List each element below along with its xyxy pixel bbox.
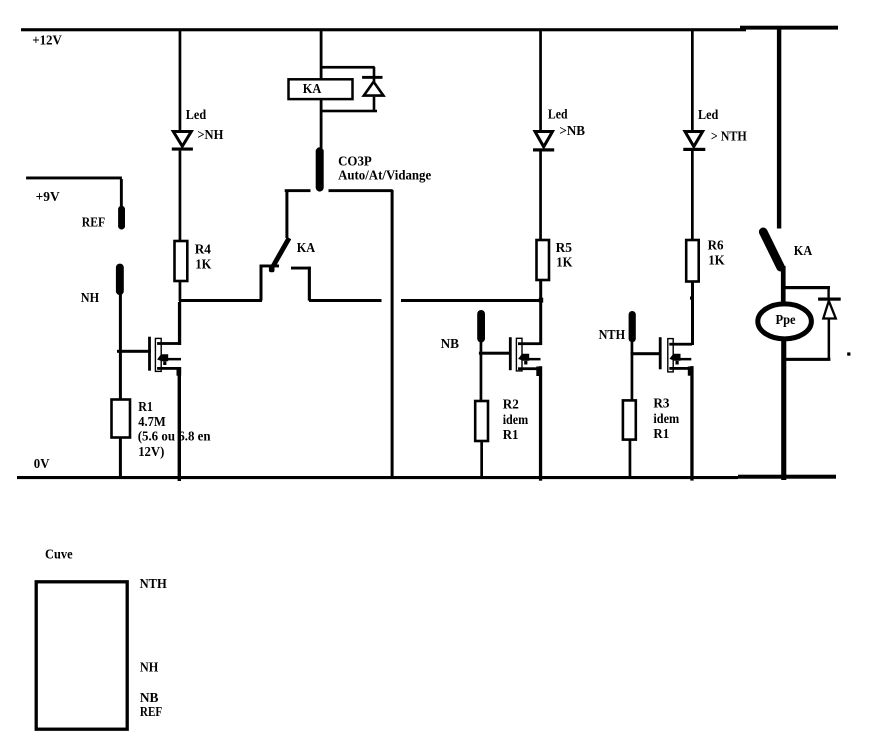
0V rail [17, 475, 836, 479]
LED >NTH diode [683, 132, 705, 152]
wire Led to R4 [179, 151, 182, 241]
wire R5 to Q2 drain [539, 280, 542, 345]
svg-text:KA: KA [303, 81, 322, 96]
svg-text:4.7M: 4.7M [138, 414, 166, 429]
svg-text:R4: R4 [195, 242, 211, 257]
svg-text:KA: KA [794, 243, 812, 258]
diode D2 flyback pump [818, 288, 841, 360]
wire relay bottom parallel [321, 110, 377, 113]
svg-text:idem: idem [503, 412, 529, 427]
svg-text:0V: 0V [34, 456, 50, 471]
svg-text:> NTH: > NTH [711, 128, 747, 143]
wire NH electrode to gate and R1 [119, 294, 122, 400]
svg-text:R3: R3 [653, 396, 669, 411]
svg-text:REF: REF [140, 704, 162, 719]
svg-text:R1: R1 [653, 426, 669, 441]
svg-text:>NB: >NB [559, 123, 585, 138]
wire blade to pump node [781, 266, 786, 303]
svg-text:R1: R1 [503, 427, 519, 442]
resistor R5 [537, 240, 550, 280]
wire R4 to node [179, 281, 182, 301]
svg-text:CO3P: CO3P [338, 153, 372, 168]
wire Led to R6 [691, 151, 694, 240]
wire NB to gate [480, 342, 483, 353]
label R2 idem R1 [503, 397, 529, 442]
LED >NB diode [533, 132, 554, 152]
label CO3P [338, 153, 431, 182]
label R5 1K [556, 240, 573, 269]
wire diode bottom to pump [785, 358, 830, 361]
svg-text:NH: NH [140, 660, 159, 675]
resistor R1 [112, 400, 131, 438]
svg-text:R1: R1 [138, 399, 153, 414]
label R6 1K [708, 238, 725, 268]
motor Ppe [758, 304, 812, 339]
wire node to KA left contact [179, 299, 262, 302]
stray dot [847, 352, 850, 355]
electrode NTH [629, 311, 636, 342]
svg-text:NH: NH [81, 290, 100, 305]
svg-text:Cuve: Cuve [45, 547, 73, 562]
resistor R3 [623, 400, 636, 439]
transistor Q3 [631, 337, 693, 376]
wire +12V to KA pump switch [777, 27, 781, 229]
wire Ppe to 0V [781, 338, 786, 480]
svg-text:R2: R2 [503, 397, 519, 412]
svg-text:1K: 1K [708, 253, 725, 268]
transistor Q2 [479, 337, 541, 376]
svg-text:+9V: +9V [36, 189, 60, 204]
svg-text:>NH: >NH [197, 127, 223, 142]
wire KA right contact [291, 267, 382, 302]
wire R6 to Q3 drain [691, 282, 694, 346]
wire node to NB drain line [401, 298, 543, 303]
svg-text:(5.6 ou 6.8 en: (5.6 ou 6.8 en [138, 429, 211, 445]
svg-text:12V): 12V) [138, 444, 164, 460]
electrode NB [477, 310, 485, 343]
wire R3 to 0V [629, 440, 632, 477]
wire gate to R2 [480, 354, 483, 401]
wire CO3P left throw [285, 189, 311, 238]
label R4 1K [195, 242, 212, 272]
wire +12V to relay KA [320, 30, 323, 80]
svg-text:+12V: +12V [32, 33, 62, 48]
svg-text:NB: NB [441, 336, 459, 351]
wire pump node to diode [783, 286, 830, 289]
svg-text:idem: idem [653, 411, 679, 426]
wire gate to R3 [631, 355, 634, 400]
wire node to Q1 drain [178, 302, 181, 345]
tank Cuve [36, 582, 127, 729]
resistor R2 [475, 401, 488, 441]
svg-text:KA: KA [297, 240, 315, 255]
wire R1 to 0V [119, 438, 122, 477]
wire NTH to gate [631, 342, 634, 354]
svg-text:1K: 1K [556, 254, 572, 269]
svg-text:R5: R5 [556, 240, 572, 255]
svg-text:Led: Led [186, 107, 207, 122]
electrode NH [116, 264, 124, 295]
node tick [690, 297, 694, 300]
label R3 idem R1 [653, 396, 679, 441]
switch KA pump blade [763, 232, 780, 267]
svg-text:REF: REF [82, 215, 105, 230]
wire CO3P right throw to 0V [329, 189, 394, 477]
svg-text:Auto/At/Vidange: Auto/At/Vidange [338, 168, 431, 183]
svg-text:NTH: NTH [599, 327, 626, 342]
svg-text:NB: NB [140, 690, 159, 705]
+12V rail [21, 26, 838, 32]
label R1 value [138, 399, 211, 460]
svg-text:Ppe: Ppe [776, 312, 796, 327]
transistor Q1 [117, 337, 181, 376]
wire relay top parallel [321, 66, 375, 69]
wire +12V to Led NH [179, 30, 182, 130]
wire relay to CO3P [320, 100, 323, 148]
wire Led to R5 [539, 152, 542, 241]
diode D1 flyback [362, 67, 383, 111]
wire Q2 source to 0V [539, 366, 542, 481]
electrode REF [118, 206, 125, 230]
resistor R4 [175, 241, 188, 281]
wire Q1 source to 0V [178, 368, 181, 481]
svg-text:R6: R6 [708, 238, 724, 253]
svg-text:NTH: NTH [140, 576, 167, 591]
relay coil KA [289, 79, 353, 99]
svg-text:1K: 1K [195, 257, 211, 272]
node +9V supply line [26, 177, 123, 208]
wire +12V to Led NTH [691, 30, 694, 131]
LED >NH diode [172, 132, 193, 151]
svg-text:Led: Led [548, 107, 568, 122]
wire +12V to Led NB [539, 30, 542, 131]
wire R2 to 0V [480, 441, 483, 477]
svg-text:Led: Led [698, 107, 719, 122]
switch KA contact blade [269, 238, 289, 272]
resistor R6 [686, 240, 699, 282]
wire KA left contact [260, 265, 280, 301]
wire Q3 source to 0V [690, 366, 693, 481]
switch CO3P common pole [316, 147, 324, 191]
